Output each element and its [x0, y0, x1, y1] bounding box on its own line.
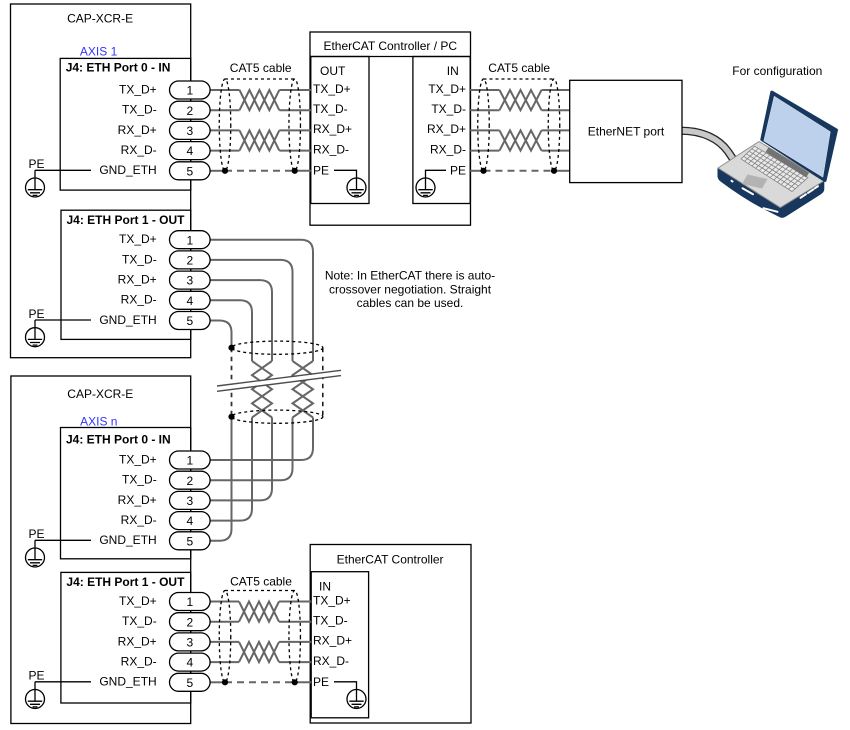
svg-text:PE: PE: [28, 527, 44, 541]
svg-text:PE: PE: [28, 157, 44, 171]
svg-text:TX_D-: TX_D-: [122, 614, 157, 628]
svg-text:CAT5 cable: CAT5 cable: [230, 61, 292, 75]
svg-text:2: 2: [186, 104, 193, 118]
svg-text:TX_D+: TX_D+: [428, 82, 466, 96]
svg-text:TX_D+: TX_D+: [119, 452, 157, 466]
svg-text:2: 2: [186, 474, 193, 488]
svg-text:EtherCAT Controller: EtherCAT Controller: [337, 553, 444, 567]
svg-text:TX_D+: TX_D+: [119, 594, 157, 608]
svg-text:1: 1: [186, 595, 193, 609]
svg-text:IN: IN: [319, 579, 331, 593]
svg-text:TX_D+: TX_D+: [313, 82, 351, 96]
svg-text:RX_D-: RX_D-: [121, 293, 157, 307]
svg-text:CAP-XCR-E: CAP-XCR-E: [67, 12, 133, 26]
svg-text:1: 1: [186, 233, 193, 247]
svg-text:crossover negotiation. Straigh: crossover negotiation. Straight: [329, 282, 492, 296]
svg-text:2: 2: [186, 615, 193, 629]
svg-text:TX_D-: TX_D-: [313, 614, 348, 628]
svg-text:GND_ETH: GND_ETH: [99, 163, 156, 177]
svg-text:RX_D-: RX_D-: [121, 655, 157, 669]
svg-text:PE: PE: [450, 163, 466, 177]
svg-text:3: 3: [186, 494, 193, 508]
svg-text:1: 1: [186, 454, 193, 468]
svg-text:TX_D-: TX_D-: [313, 102, 348, 116]
svg-text:1: 1: [186, 84, 193, 98]
svg-text:PE: PE: [28, 307, 44, 321]
svg-text:5: 5: [186, 164, 193, 178]
svg-text:RX_D+: RX_D+: [313, 122, 352, 136]
svg-text:4: 4: [186, 514, 193, 528]
svg-text:4: 4: [186, 294, 193, 308]
svg-text:CAP-XCR-E: CAP-XCR-E: [67, 387, 133, 401]
svg-text:OUT: OUT: [320, 64, 346, 78]
svg-text:TX_D-: TX_D-: [122, 103, 157, 117]
svg-text:RX_D+: RX_D+: [118, 273, 157, 287]
svg-text:GND_ETH: GND_ETH: [99, 313, 156, 327]
svg-text:AXIS n: AXIS n: [80, 415, 117, 429]
svg-text:RX_D+: RX_D+: [313, 634, 352, 648]
svg-text:EtherNET port: EtherNET port: [588, 124, 665, 138]
svg-text:J4: ETH Port 1 - OUT: J4: ETH Port 1 - OUT: [67, 213, 186, 227]
svg-text:AXIS 1: AXIS 1: [80, 45, 118, 59]
svg-text:5: 5: [186, 676, 193, 690]
svg-text:TX_D+: TX_D+: [119, 232, 157, 246]
svg-text:IN: IN: [447, 64, 459, 78]
svg-text:3: 3: [186, 274, 193, 288]
svg-text:RX_D+: RX_D+: [118, 493, 157, 507]
svg-text:RX_D+: RX_D+: [118, 634, 157, 648]
svg-text:TX_D-: TX_D-: [122, 473, 157, 487]
svg-text:RX_D-: RX_D-: [313, 654, 349, 668]
svg-text:3: 3: [186, 124, 193, 138]
svg-text:RX_D-: RX_D-: [121, 143, 157, 157]
svg-text:PE: PE: [28, 669, 44, 683]
svg-text:4: 4: [186, 656, 193, 670]
svg-text:3: 3: [186, 636, 193, 650]
svg-text:EtherCAT Controller / PC: EtherCAT Controller / PC: [323, 39, 457, 53]
svg-text:RX_D+: RX_D+: [118, 123, 157, 137]
svg-text:CAT5 cable: CAT5 cable: [230, 574, 292, 588]
svg-text:RX_D+: RX_D+: [427, 122, 466, 136]
svg-text:RX_D-: RX_D-: [430, 142, 466, 156]
svg-text:J4: ETH Port 0 - IN: J4: ETH Port 0 - IN: [66, 61, 171, 75]
svg-text:J4: ETH Port 1 - OUT: J4: ETH Port 1 - OUT: [66, 575, 185, 589]
svg-text:cables can be used.: cables can be used.: [357, 296, 464, 310]
svg-text:GND_ETH: GND_ETH: [99, 675, 156, 689]
svg-text:TX_D-: TX_D-: [122, 252, 157, 266]
svg-text:TX_D+: TX_D+: [313, 593, 351, 607]
svg-text:CAT5 cable: CAT5 cable: [488, 61, 550, 75]
svg-text:2: 2: [186, 254, 193, 268]
svg-text:PE: PE: [313, 163, 329, 177]
svg-text:RX_D-: RX_D-: [121, 513, 157, 527]
svg-text:GND_ETH: GND_ETH: [99, 533, 156, 547]
svg-text:PE: PE: [313, 675, 329, 689]
svg-text:J4: ETH Port 0 - IN: J4: ETH Port 0 - IN: [66, 433, 171, 447]
svg-text:5: 5: [186, 314, 193, 328]
svg-text:TX_D-: TX_D-: [431, 102, 466, 116]
svg-text:Note: In EtherCAT there is aut: Note: In EtherCAT there is auto-: [325, 269, 495, 283]
svg-text:TX_D+: TX_D+: [119, 82, 157, 96]
svg-text:4: 4: [186, 144, 193, 158]
svg-text:5: 5: [186, 534, 193, 548]
svg-text:For configuration: For configuration: [732, 64, 822, 78]
svg-text:RX_D-: RX_D-: [313, 142, 349, 156]
